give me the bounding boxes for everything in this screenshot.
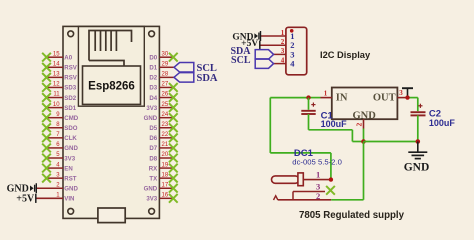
pin 22 (D6) right [149,132,177,142]
GND power symbol at connector pin 1 [232,31,260,42]
+5V power symbol at connector pin 2 [241,39,260,50]
svg-text:SD2: SD2 [64,95,76,102]
svg-text:GND: GND [144,186,158,193]
svg-text:2: 2 [281,38,285,46]
svg-text:12: 12 [53,82,60,88]
svg-text:25: 25 [162,102,169,108]
pin 20 (D8) right [149,152,177,162]
svg-text:SDO: SDO [64,125,77,132]
svg-text:7805 Regulated supply: 7805 Regulated supply [299,210,405,221]
connector J1 body (I2C display header) [286,27,307,75]
pin 8 (SDO) left [42,122,78,132]
svg-text:17: 17 [162,182,169,188]
svg-text:3V3: 3V3 [64,155,75,162]
wire: regulator pin2 to rail [363,129,365,142]
ESP8266 module body [63,26,159,218]
pin 26 (D4) right [149,92,177,102]
pin 17 (GND) right [144,182,178,192]
antenna zone rectangle [78,26,144,106]
pin 11 (SD2) left [42,92,77,102]
svg-text:28: 28 [162,72,169,78]
svg-text:D2: D2 [149,75,157,82]
svg-text:2: 2 [355,122,364,126]
connector pin 2 [260,38,295,50]
svg-text:1: 1 [281,29,285,37]
svg-text:11: 11 [53,92,60,98]
GND power symbol at ESP pin 2 [7,183,37,194]
junction node C2/rail [416,139,421,144]
svg-text:EN: EN [64,165,72,172]
svg-text:GND: GND [64,186,78,193]
pin 21 (D7) right [149,142,177,152]
svg-text:OUT: OUT [373,92,396,103]
junction node at OUT [405,95,409,99]
svg-text:RX: RX [149,165,158,172]
svg-text:A0: A0 [64,55,72,62]
C1 value text [321,111,348,130]
pin 6 (GND) left [42,142,78,152]
SDA net flag at connector pin 3 [230,46,273,59]
svg-text:SCL: SCL [231,55,251,66]
svg-text:D7: D7 [149,145,157,152]
svg-text:RSV: RSV [64,75,77,82]
svg-text:21: 21 [162,142,169,148]
svg-text:GND: GND [144,115,158,122]
pin 9 (CMD) left [42,112,79,122]
svg-text:4: 4 [290,59,295,69]
C2 value text [429,109,456,129]
svg-text:GND: GND [404,161,430,173]
svg-text:D1: D1 [149,65,157,72]
svg-text:SD3: SD3 [64,85,76,92]
svg-text:23: 23 [162,122,169,128]
svg-text:RSV: RSV [64,65,77,72]
pin 28 (D2) right [149,72,174,82]
connector pin 3 [274,47,295,59]
pin 14 (RSV) left [42,61,78,71]
svg-text:CLK: CLK [64,135,77,142]
svg-text:D3: D3 [149,85,157,92]
svg-text:D4: D4 [149,95,157,102]
svg-text:D6: D6 [149,135,157,142]
SDA net flag at D2 [174,73,218,84]
mounting hole top-left [68,31,74,37]
pin 13 (RSV) left [42,72,78,82]
svg-text:dc-005 5.5-2.0: dc-005 5.5-2.0 [292,157,342,166]
junction node jack pin1 [329,177,333,181]
mounting hole top-right [149,31,155,37]
svg-text:29: 29 [162,61,169,67]
pin 5 (3V3) left [42,152,76,162]
svg-text:19: 19 [162,162,169,168]
pin 2 (GND) left [36,182,79,192]
jack pin 2 (sleeve) [274,191,332,201]
mounting hole bottom-right [149,208,155,214]
svg-text:15: 15 [53,51,60,57]
svg-text:3: 3 [281,47,285,55]
svg-text:18: 18 [162,172,169,178]
svg-text:TX: TX [149,175,158,182]
svg-text:RST: RST [64,175,76,182]
svg-text:SDA: SDA [197,73,218,84]
capacitor C1 [301,98,315,130]
wire: OUT to C2 top [408,98,418,112]
junction node at C1/IN [306,95,310,99]
svg-text:GND: GND [64,145,78,152]
svg-text:100uF: 100uF [321,119,348,129]
connector pin 4 [274,56,296,68]
pin-1 marker dot [290,29,294,33]
svg-text:3V3: 3V3 [146,196,157,203]
pin 23 (D5) right [149,122,177,132]
svg-text:13: 13 [53,72,60,78]
USB connector [98,208,125,223]
pin 18 (TX) right [149,172,177,182]
svg-text:D0: D0 [149,55,157,62]
pin 29 (D1) right [149,61,174,71]
jack pin 3 (switch) [293,182,335,200]
pin 7 (CLK) left [42,132,77,142]
svg-text:10: 10 [53,102,60,108]
svg-text:24: 24 [162,112,169,118]
svg-text:1: 1 [316,170,320,180]
PCB antenna meander [89,31,132,67]
svg-text:26: 26 [162,92,169,98]
svg-text:I2C Display: I2C Display [320,50,371,60]
svg-text:1: 1 [324,89,328,97]
svg-text:14: 14 [53,61,60,67]
svg-text:GND: GND [353,110,377,121]
jack pin 1 [303,170,331,180]
svg-text:3: 3 [399,89,403,97]
wire: rail to C2 foot [364,141,418,143]
capacitor C2 [411,104,426,142]
regulator U2 7805 body [332,88,398,120]
+5V power bar at regulator output [402,88,413,97]
pin 27 (D3) right [149,82,177,92]
svg-text:16: 16 [162,193,169,199]
svg-text:D5: D5 [149,125,157,132]
svg-text:2: 2 [316,191,320,201]
svg-text:27: 27 [162,82,169,88]
svg-text:22: 22 [162,132,169,138]
wire: ground net left (C1 to rail) [309,130,364,142]
wire: input net (jack pin1 to C1 to IN) [270,98,331,180]
svg-text:CMD: CMD [64,115,78,122]
barrel jack DC1 [272,173,304,186]
svg-text:100uF: 100uF [429,118,456,128]
svg-text:VIN: VIN [64,196,74,203]
SCL net flag at D1 [174,63,217,74]
svg-text:+5V: +5V [16,194,35,205]
svg-text:3V3: 3V3 [146,105,157,112]
svg-text:30: 30 [162,51,169,57]
pin 15 (A0) left [42,51,73,61]
svg-text:20: 20 [162,152,169,158]
pin 19 (RX) right [149,162,178,172]
junction node pin2/rail [361,139,366,144]
mounting hole bottom-left [68,208,74,214]
pin 16 (3V3) right [146,193,177,203]
pin 3 stub (OUT) [397,89,407,98]
pin 12 (SD3) left [42,82,77,92]
pin 2 stub (GND) [355,119,364,128]
svg-text:Esp8266: Esp8266 [88,81,135,93]
svg-text:IN: IN [336,92,348,103]
pin 1 stub (IN) [321,89,332,97]
shield can rectangle [83,66,141,104]
ground symbol [408,142,427,159]
pin 4 (EN) left [42,162,73,172]
pin 30 (D0) right [149,51,177,61]
svg-text:4: 4 [281,56,285,64]
SCL net flag at connector pin 4 [231,55,274,68]
+5V power symbol at ESP pin 1 [16,194,36,205]
pin 1 (VIN) left [36,193,75,203]
pin 24 (GND) right [144,112,178,122]
wire: jack sleeve to ground rail [331,142,363,200]
connector pin 1 [260,29,294,41]
pin 3 (RST) left [42,172,77,182]
svg-text:SD1: SD1 [64,105,76,112]
svg-text:D8: D8 [149,155,157,162]
pin 25 (3V3) right [146,102,177,112]
pin 10 (SD1) left [42,102,77,112]
